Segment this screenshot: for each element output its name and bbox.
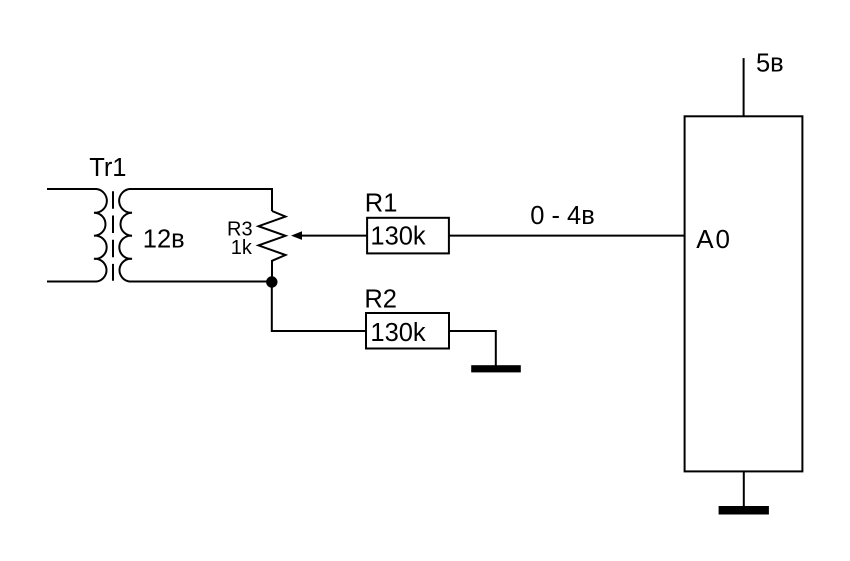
wire IC to ground xyxy=(743,471,745,510)
ground (R2) xyxy=(471,365,521,372)
node junction dot xyxy=(266,276,277,287)
svg-text:130k: 130k xyxy=(370,319,426,347)
wire wiper to R1 xyxy=(300,235,367,237)
svg-text:R1: R1 xyxy=(365,189,398,217)
wire 5в supply pin xyxy=(743,58,745,116)
potentiometer R3 zigzag xyxy=(259,211,286,282)
svg-text:R2: R2 xyxy=(364,285,397,313)
transformer Tr1 core (dashed line) xyxy=(112,191,114,280)
svg-text:5в: 5в xyxy=(756,49,784,77)
resistor R1 box xyxy=(367,218,449,254)
svg-text:0 - 4в: 0 - 4в xyxy=(530,202,595,230)
R3 wiper arrow xyxy=(291,231,302,240)
IC box (ADC) xyxy=(685,116,803,471)
wire secondary top to R3 xyxy=(130,189,273,211)
svg-text:A0: A0 xyxy=(696,224,732,254)
transformer Tr1 primary winding xyxy=(47,189,107,282)
wire R2 to ground xyxy=(449,331,496,366)
ground (IC) xyxy=(719,506,769,515)
wire R1 to A0 xyxy=(449,235,685,237)
wire node to R2 xyxy=(272,282,366,331)
svg-text:12в: 12в xyxy=(143,226,185,254)
transformer Tr1 secondary winding xyxy=(119,189,179,282)
resistor R2 box xyxy=(366,313,449,349)
svg-text:130k: 130k xyxy=(370,223,426,251)
svg-text:1k: 1k xyxy=(231,237,253,259)
svg-text:Tr1: Tr1 xyxy=(89,154,126,182)
wire secondary bottom to node xyxy=(130,281,273,283)
